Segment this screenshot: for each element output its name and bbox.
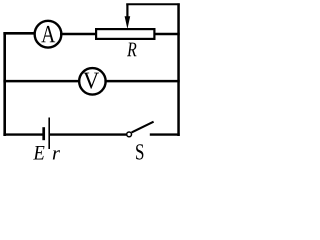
wire: wiper top horizontal	[126, 3, 180, 5]
label r	[53, 150, 60, 159]
wire: battery to switch	[50, 133, 127, 135]
wire: top-left segment to ammeter	[3, 32, 35, 35]
wire: ammeter to rheostat	[60, 33, 97, 36]
wire: bottom-left segment to battery	[3, 133, 42, 135]
wire: voltmeter branch right	[104, 80, 179, 83]
label E	[33, 146, 44, 159]
rheostat wiper arrow	[125, 5, 131, 29]
battery E r: long thin plate (positive)	[48, 118, 50, 150]
battery E r: short thick plate (negative)	[42, 127, 45, 140]
wire: voltmeter branch left	[3, 80, 80, 83]
label S	[136, 144, 143, 159]
switch S: blade	[132, 122, 154, 133]
wire: rheostat right terminal stub	[154, 33, 180, 36]
wire: switch to bottom-right corner	[150, 133, 180, 135]
ammeter A	[35, 21, 62, 48]
voltmeter V	[79, 68, 106, 95]
label R	[127, 43, 136, 57]
wire: right vertical side	[177, 3, 180, 136]
wire: left vertical side	[3, 32, 6, 136]
resistor R (rheostat body)	[96, 29, 154, 39]
switch S: pivot circle	[127, 132, 132, 137]
